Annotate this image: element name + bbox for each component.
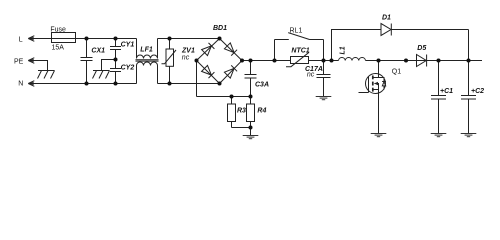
wire R4 junction to ground [250, 128, 252, 136]
junction DC+ / C3A [249, 59, 253, 63]
svg-text:Fuse: Fuse [50, 26, 66, 33]
svg-text:nc: nc [307, 72, 315, 79]
junction DC+ / C2 / D1 return [467, 59, 471, 63]
svg-text:BD1: BD1 [213, 25, 227, 32]
wire Q1 source to ground [378, 94, 380, 134]
wire D1 branch return to C2 node [468, 30, 470, 61]
junction R3-R4 / ground [249, 126, 253, 130]
capacitor CX1 [81, 39, 106, 84]
junction bridge DC- left vertex [195, 59, 199, 63]
junction DC+ mid node [404, 59, 408, 63]
svg-text:D1: D1 [382, 15, 391, 22]
BD1 diode (left-top edge) [202, 43, 215, 56]
junction DC+ / Q1 drain [377, 59, 381, 63]
junction CY1/CY2 midpoint [114, 58, 118, 62]
svg-text:N: N [18, 80, 23, 87]
wire R3 bottom to R4 bottom [232, 127, 251, 129]
svg-text:+C2: +C2 [471, 88, 484, 95]
wire DC-minus: bridge left vertex down to ground bus [196, 61, 198, 97]
node L (line input) [19, 36, 35, 44]
NTC thermistor NTC1 [286, 47, 310, 66]
junction bridge DC+ right vertex [240, 59, 244, 63]
junction L rail / ZV1 [168, 37, 172, 41]
wire ground bus [197, 96, 251, 98]
svg-text:CY2: CY2 [121, 64, 135, 71]
junction DC+ / RL1 right / C17A [322, 59, 326, 63]
svg-text:L1: L1 [340, 46, 347, 54]
capacitor C17A (nc) [305, 61, 331, 97]
wire DC-plus: NTC1 to L1 [309, 60, 339, 62]
capacitor C2 [461, 61, 484, 134]
svg-text:nc: nc [182, 55, 190, 62]
resistor R3 [228, 97, 247, 128]
capacitor C1 [431, 61, 453, 134]
ground (R3/R4) [243, 136, 259, 139]
wire top rail: L arrow through fuse to LF1 [28, 38, 136, 40]
wire N line LF1 to bridge [158, 83, 220, 85]
svg-text:CX1: CX1 [91, 47, 105, 54]
capacitor CY2 [110, 60, 134, 84]
junction bridge AC bottom vertex [218, 82, 222, 86]
junction DC+ / D1 branch [330, 59, 334, 63]
wire N line to LF1 [28, 83, 136, 85]
node PE (protective earth input) [14, 58, 34, 66]
wire top rail LF1 to bridge [158, 38, 220, 40]
junction L rail / CX1 [85, 37, 89, 41]
ground (C17A) [316, 97, 332, 100]
svg-text:L: L [19, 37, 23, 44]
varistor ZV1 (nc) [162, 39, 195, 84]
diode D1 [381, 15, 469, 36]
wire CY midpoint to chassis [102, 60, 116, 71]
svg-text:RL1: RL1 [290, 27, 303, 34]
svg-text:15A: 15A [52, 44, 65, 51]
junction DC+ / RL1 left / NTC1 [273, 59, 277, 63]
junction N line / ZV1 [168, 82, 172, 86]
fuse F1 15A [50, 26, 75, 51]
capacitor C3A [245, 61, 270, 97]
svg-text:Q1: Q1 [392, 68, 401, 75]
BD1 diode (left-bottom edge) [202, 65, 215, 78]
wire PE to chassis [28, 61, 47, 71]
common-mode choke LF1 [136, 39, 159, 84]
svg-text:C3A: C3A [255, 81, 269, 88]
chassis ground (PE) [38, 71, 55, 79]
inductor L1 [339, 46, 366, 60]
ground (C1) [431, 134, 447, 137]
svg-text:LF1: LF1 [140, 46, 153, 53]
chassis ground (CY midpoint) [93, 71, 110, 79]
diode D5 [417, 45, 427, 67]
junction bridge AC top vertex [218, 37, 222, 41]
node N (neutral input) [18, 80, 34, 87]
svg-text:+C1: +C1 [440, 88, 453, 95]
ground (C2) [461, 134, 477, 137]
capacitor CY1 [110, 39, 134, 60]
ground (Q1 source) [371, 134, 387, 137]
svg-text:R3: R3 [237, 107, 246, 114]
junction L rail / CY1 [114, 37, 118, 41]
BD1 diode (bottom-right edge) [224, 65, 237, 78]
BD1 diode (top-right edge) [224, 43, 237, 56]
svg-text:NTC1: NTC1 [291, 47, 309, 54]
svg-text:ZV1: ZV1 [181, 48, 195, 55]
wire DC-plus: bridge right vertex to NTC1 [242, 60, 291, 62]
junction N line / CY2 [114, 82, 118, 86]
svg-text:D5: D5 [417, 45, 426, 52]
wire D1 branch riser [332, 30, 382, 61]
MOSFET Q1 [359, 61, 402, 94]
junction DC+ / C1 [437, 59, 441, 63]
junction bus / R4 / C3A [249, 95, 253, 99]
bridge rectifier BD1 [197, 25, 243, 84]
junction bus / R3 [230, 95, 234, 99]
wire DC-plus: L1 to output stub [366, 60, 483, 62]
junction N line / CX1 [85, 82, 89, 86]
svg-text:R4: R4 [257, 107, 266, 114]
svg-text:CY1: CY1 [121, 42, 135, 49]
relay contact RL1 [275, 27, 324, 60]
svg-text:PE: PE [14, 58, 24, 65]
resistor R4 [247, 97, 267, 128]
